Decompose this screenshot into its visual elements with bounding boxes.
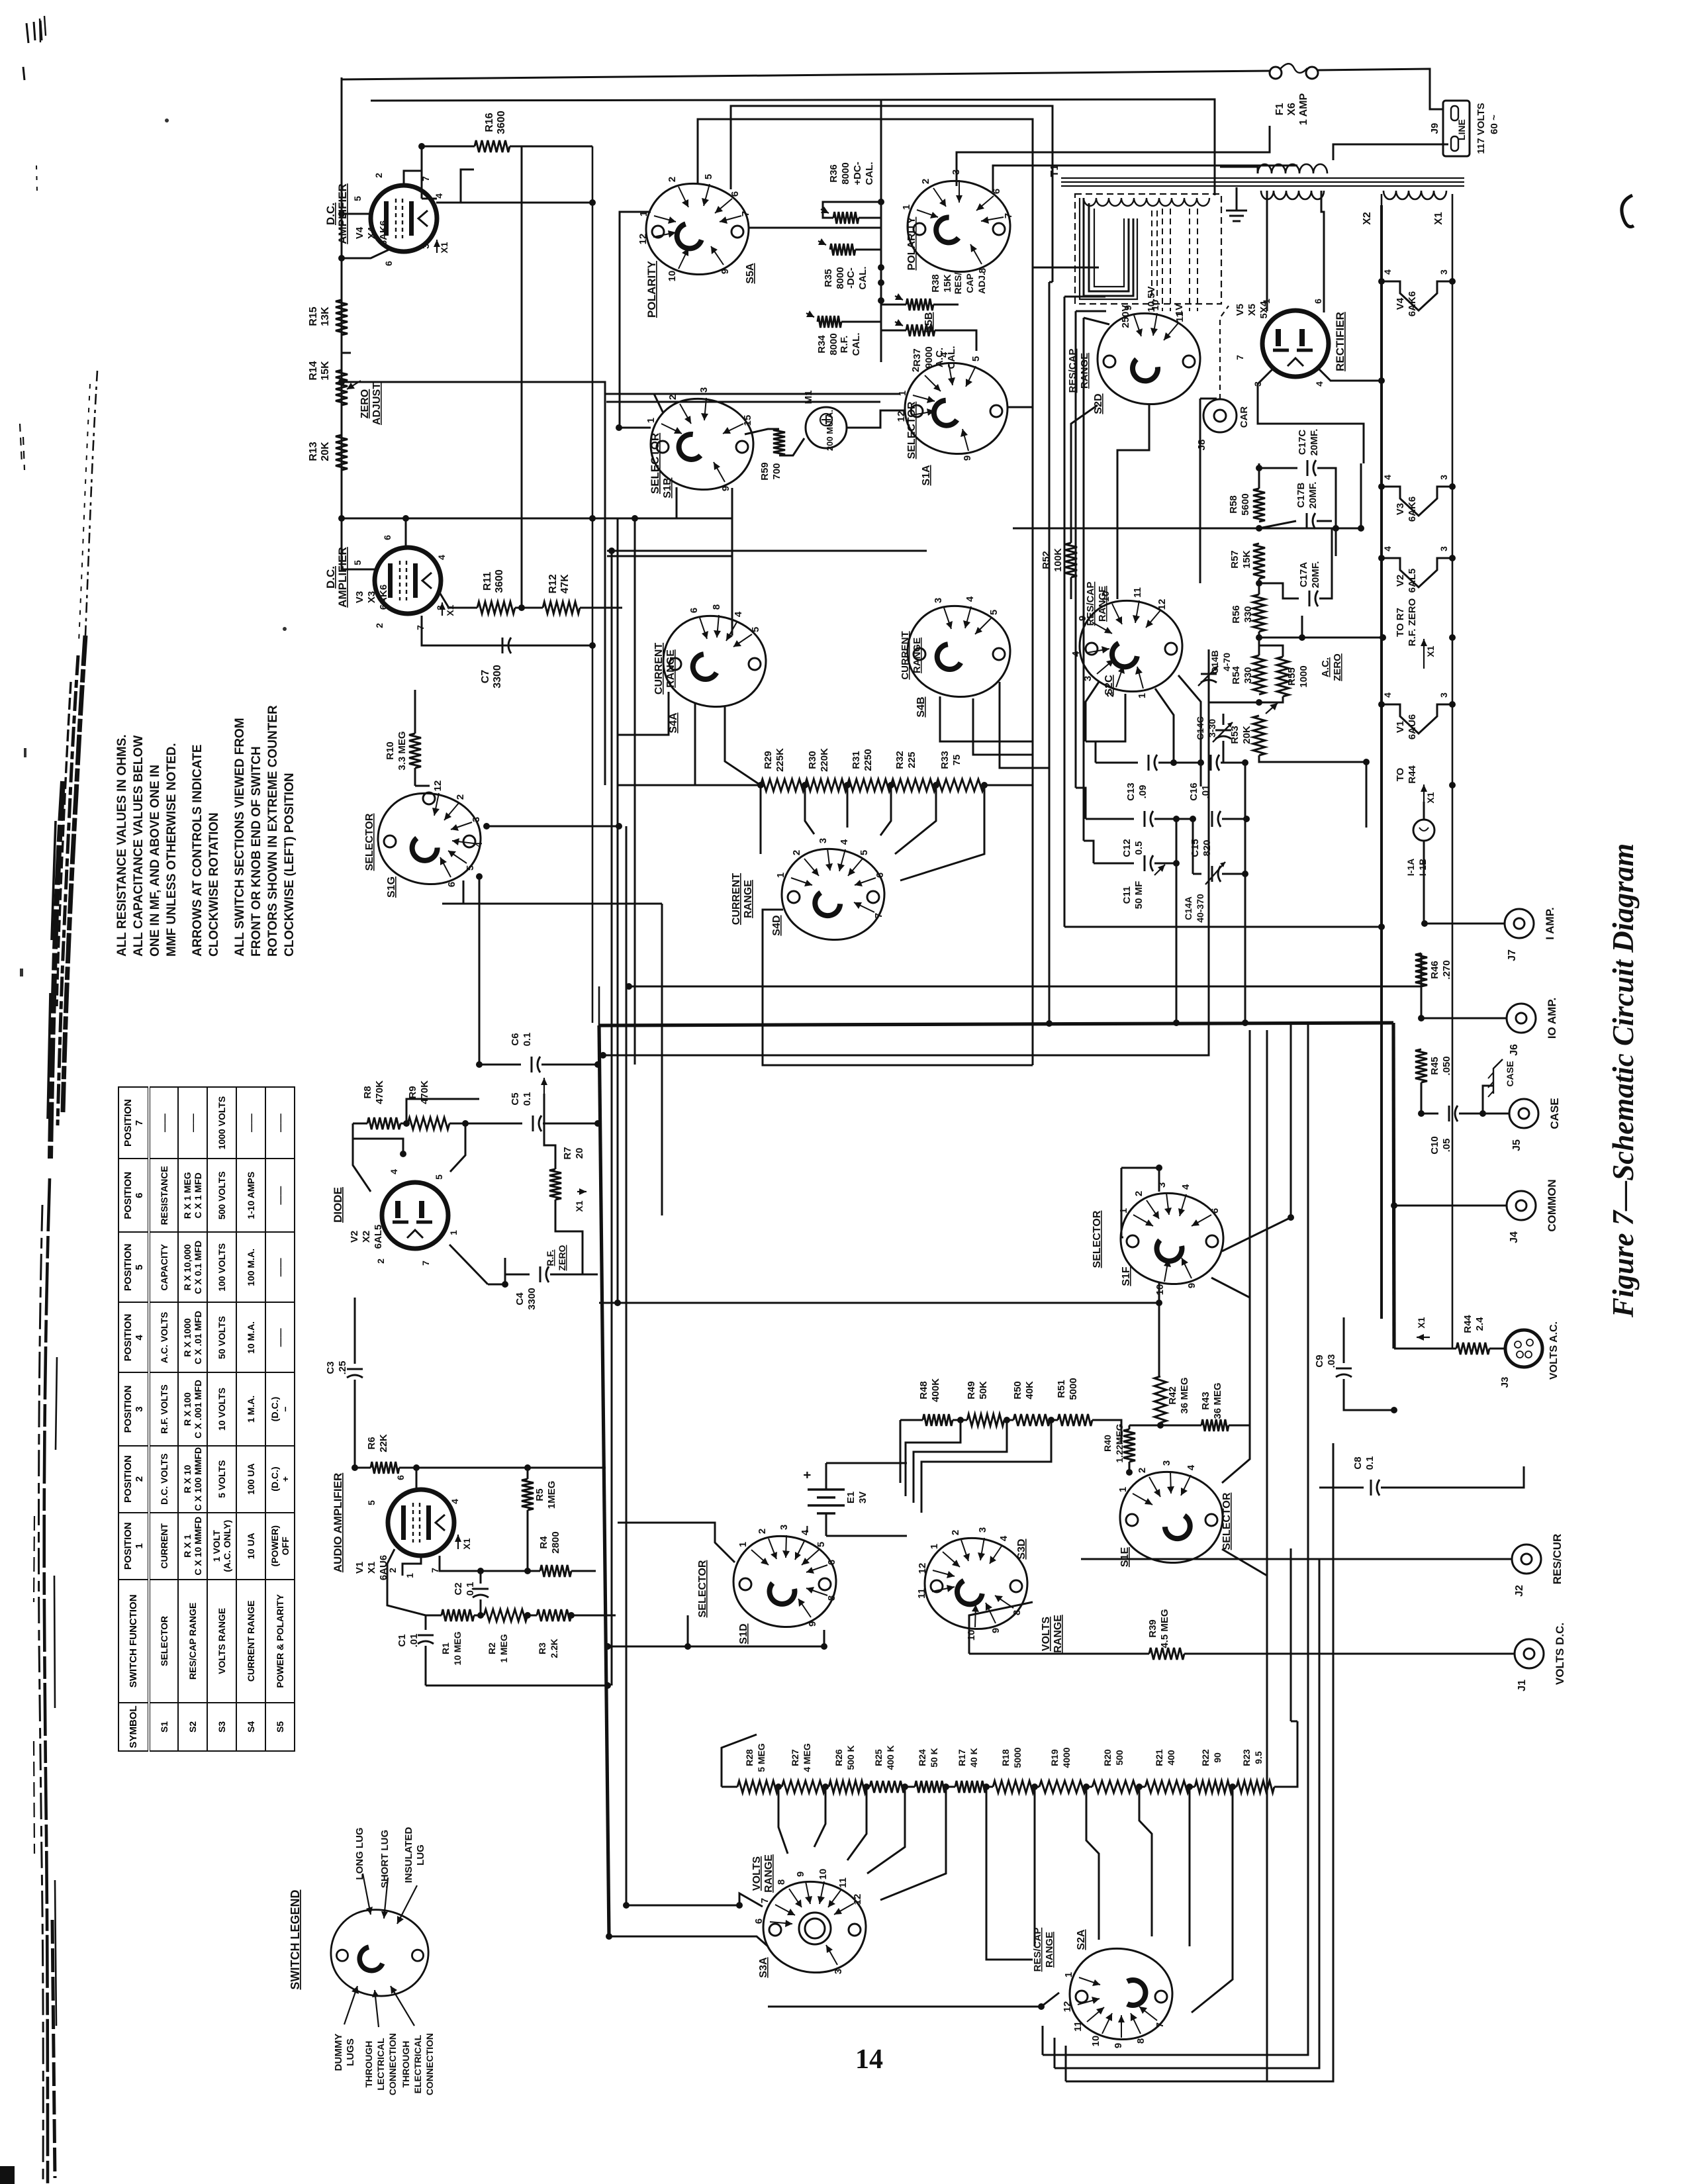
wire	[805, 785, 814, 834]
svg-text:4: 4	[839, 839, 850, 845]
svg-text:R48400K: R48400K	[918, 1378, 941, 1402]
svg-text:2: 2	[910, 367, 921, 372]
resistor R58 5600	[1253, 489, 1265, 522]
junction	[1378, 377, 1385, 384]
junction	[413, 1464, 420, 1471]
wire	[342, 518, 732, 520]
resistor	[833, 212, 859, 224]
wire	[1452, 194, 1454, 205]
wire	[1158, 1168, 1160, 1192]
wire	[1086, 682, 1099, 741]
svg-text:2: 2	[1133, 1191, 1145, 1196]
wire	[1117, 405, 1149, 599]
wire	[880, 99, 882, 362]
wire	[1086, 741, 1096, 763]
svg-text:R5320K: R5320K	[1229, 726, 1252, 744]
resistor R33 75	[936, 779, 984, 791]
wire	[1092, 1420, 1121, 1443]
wire	[1121, 1167, 1159, 1169]
wire	[1236, 187, 1238, 211]
svg-text:3: 3	[1438, 475, 1449, 480]
svg-text:ARROWS AT CONTROLS INDICATE: ARROWS AT CONTROLS INDICATE	[191, 744, 205, 957]
wire	[880, 1787, 946, 1900]
svg-text:C17C20MF.: C17C20MF.	[1297, 429, 1320, 456]
junction	[1004, 1417, 1010, 1423]
svg-text:6: 6	[826, 1560, 837, 1565]
capacitor C1 .01	[418, 1635, 434, 1637]
junction	[524, 1464, 531, 1471]
resistor R22 90	[1195, 1781, 1233, 1793]
svg-text:5: 5	[750, 627, 761, 632]
heavy bus row	[599, 1023, 1393, 1025]
wire	[895, 785, 936, 854]
wire	[1089, 203, 1129, 291]
resistor R46 .270	[1415, 953, 1427, 986]
svg-text:9: 9	[1123, 305, 1134, 310]
svg-text:2: 2	[920, 179, 931, 184]
svg-text:S2A: S2A	[1076, 1929, 1087, 1950]
wire	[399, 1467, 606, 1469]
svg-text:C120.5: C120.5	[1121, 839, 1145, 857]
resistor R54 330	[1253, 655, 1265, 694]
svg-text:SELECTOR: SELECTOR	[906, 401, 917, 459]
wire	[841, 321, 881, 323]
wire	[1193, 873, 1201, 875]
wire	[505, 1274, 530, 1276]
wire	[1307, 1023, 1309, 1576]
junction	[802, 782, 808, 788]
wire	[635, 487, 677, 518]
wire	[731, 488, 733, 636]
svg-text:C17A20MF.: C17A20MF.	[1298, 561, 1321, 589]
junction	[1288, 1214, 1294, 1221]
wire	[342, 490, 375, 569]
wire	[449, 1123, 522, 1125]
svg-text:4: 4	[1382, 546, 1393, 551]
resistor R53 20K	[1253, 716, 1265, 755]
wire	[855, 249, 881, 251]
svg-text:S1E: S1E	[1119, 1547, 1131, 1568]
svg-text:4: 4	[1186, 1464, 1197, 1470]
wire	[1259, 521, 1296, 528]
wire	[426, 1615, 442, 1617]
connector J9 LINE 117 VOLTS 60~	[1443, 101, 1470, 156]
wire	[847, 1787, 867, 1860]
svg-text:10: 10	[966, 1630, 977, 1641]
wire	[406, 1099, 479, 1123]
svg-text:ALL RESISTANCE VALUES IN O: ALL RESISTANCE VALUES IN OHMS.	[115, 734, 129, 957]
resistor R4 2800	[540, 1565, 571, 1577]
svg-text:9: 9	[807, 1621, 818, 1627]
capacitor C5 0.1	[532, 1116, 534, 1131]
capacitor C12 0.5	[1144, 811, 1146, 827]
svg-text:CLOCKWISE (LEFT) POSITION: CLOCKWISE (LEFT) POSITION	[283, 773, 297, 957]
junction	[476, 1061, 483, 1068]
resistor R28 5 MEG	[737, 1781, 778, 1793]
wire	[825, 1463, 827, 1490]
svg-text:I AMP.: I AMP.	[1544, 907, 1556, 939]
junction	[1418, 1110, 1425, 1117]
svg-text:R21 MEG: R21 MEG	[487, 1634, 509, 1663]
svg-text:2: 2	[667, 177, 678, 182]
wire	[1200, 763, 1202, 786]
svg-text:C3.25: C3.25	[325, 1361, 348, 1375]
resistor R59 700	[773, 429, 785, 455]
junction	[502, 1281, 508, 1288]
svg-text:C14B4-70: C14B4-70	[1209, 650, 1232, 674]
wire	[416, 1468, 418, 1490]
svg-text:+DC-CAL.: +DC-CAL.	[852, 162, 875, 185]
junction	[844, 782, 851, 788]
svg-text:R5040K: R5040K	[1012, 1381, 1035, 1400]
heater socket V2 6AL5	[1382, 558, 1452, 587]
svg-text:SELECTOR: SELECTOR	[1221, 1492, 1233, 1550]
svg-text:IO AMP.: IO AMP.	[1546, 998, 1558, 1039]
wire	[1317, 69, 1443, 109]
svg-text:R.F.CAL.: R.F.CAL.	[839, 333, 862, 356]
wire	[592, 146, 594, 1023]
wire	[1229, 215, 1244, 217]
wire	[541, 1064, 598, 1066]
wire	[1244, 874, 1246, 1023]
wire	[826, 1535, 907, 1537]
wire	[1321, 191, 1324, 312]
svg-text:DUMMYLUGS: DUMMYLUGS	[333, 2034, 356, 2071]
wire	[984, 784, 1033, 786]
junction	[1170, 759, 1177, 766]
wire	[1423, 802, 1425, 820]
wire	[1317, 520, 1332, 522]
wire	[1343, 1317, 1345, 1363]
wire	[1319, 1487, 1364, 1489]
junction	[933, 782, 939, 788]
svg-text:R358000: R358000	[823, 267, 846, 289]
junction	[1190, 816, 1196, 822]
svg-text:POLARITY: POLARITY	[906, 216, 917, 270]
junction	[483, 823, 490, 830]
svg-text:CAR: CAR	[1239, 406, 1250, 428]
svg-text:C17B20MF.: C17B20MF.	[1295, 482, 1319, 509]
junction	[400, 1151, 406, 1157]
wire	[609, 1936, 768, 1946]
junction	[1256, 699, 1262, 706]
wire	[1043, 1576, 1308, 2055]
svg-text:S4D: S4D	[771, 915, 782, 935]
junction	[352, 1464, 358, 1471]
wire	[440, 1563, 540, 1571]
left rail	[341, 77, 343, 521]
wire	[1035, 1786, 1039, 1788]
junction	[684, 1643, 691, 1650]
svg-text:4: 4	[964, 596, 976, 602]
resistor R57 15K	[1253, 544, 1265, 579]
wire	[1076, 310, 1106, 312]
junction	[757, 782, 764, 788]
svg-text:R442.4: R442.4	[1462, 1315, 1485, 1333]
svg-text:3: 3	[1438, 692, 1449, 698]
svg-text:J6: J6	[1509, 1044, 1520, 1056]
junction	[1358, 525, 1364, 532]
svg-text:15: 15	[742, 415, 753, 426]
svg-text:R54330: R54330	[1231, 666, 1254, 685]
wire	[745, 429, 779, 434]
wire	[1055, 1559, 1319, 2068]
wire	[1049, 281, 1053, 283]
junction	[1156, 1300, 1162, 1306]
svg-text:R379000: R379000	[912, 346, 935, 368]
secondary winding (rectifier plate)	[1261, 191, 1324, 199]
resistor R31 2250	[847, 779, 891, 791]
svg-text:5: 5	[816, 1542, 827, 1547]
junction	[589, 642, 596, 649]
wire	[1360, 463, 1362, 528]
svg-text:2: 2	[950, 1530, 961, 1535]
wire	[1084, 318, 1109, 324]
svg-text:1: 1	[1117, 1487, 1129, 1492]
svg-text:6: 6	[729, 191, 741, 197]
junction	[1378, 701, 1385, 708]
junction	[1157, 1422, 1164, 1429]
wire	[1084, 841, 1094, 863]
rotary switch S5B POLARITY	[908, 181, 1010, 271]
svg-text:4: 4	[1382, 692, 1393, 698]
svg-text:S1F: S1F	[1121, 1266, 1132, 1286]
svg-text:3: 3	[818, 838, 829, 843]
svg-text:Figure 7—Schematic Circuit Dia: Figure 7—Schematic Circuit Diagram	[1607, 843, 1640, 1318]
wire	[611, 551, 613, 1685]
svg-text:R4236 MEG: R4236 MEG	[1167, 1377, 1190, 1413]
rotary switch S3D VOLTS RANGE	[925, 1538, 1027, 1629]
svg-text:11: 11	[837, 1877, 849, 1888]
svg-text:11: 11	[1174, 312, 1186, 322]
wire	[1008, 406, 1033, 408]
capacitor C3 .25	[347, 1368, 363, 1370]
junction	[632, 515, 638, 522]
svg-text:CURRENTRANGE: CURRENTRANGE	[900, 631, 923, 679]
junction	[878, 264, 884, 271]
resistor R48 400K	[923, 1414, 953, 1426]
wire	[405, 518, 407, 547]
svg-text:6: 6	[395, 1475, 406, 1480]
svg-text:2: 2	[373, 173, 384, 178]
svg-text:C9.03: C9.03	[1314, 1354, 1337, 1368]
resistor R42 36MEG	[1154, 1376, 1166, 1423]
wire	[618, 1523, 735, 1562]
svg-text:R1740 K: R1740 K	[957, 1748, 979, 1768]
resistor	[336, 435, 348, 470]
wire	[1070, 577, 1072, 599]
wire	[1394, 1205, 1507, 1207]
wire	[1220, 306, 1229, 399]
svg-text:1: 1	[1118, 1208, 1129, 1213]
resistor R51 5000	[1058, 1414, 1092, 1426]
svg-text:10: 10	[818, 1869, 829, 1880]
capacitor C14C 3-30	[1215, 730, 1231, 732]
wire	[510, 146, 592, 148]
tube V4 X4 6AK6	[371, 185, 437, 252]
junction	[1197, 759, 1204, 766]
wire	[425, 1615, 427, 1630]
shielded winding box (dashed)	[1075, 194, 1221, 304]
junction	[402, 515, 409, 522]
wire	[1032, 267, 1034, 785]
wire	[1139, 1786, 1145, 1788]
wire	[607, 550, 927, 552]
svg-text:LINE: LINE	[1456, 119, 1467, 140]
wire	[353, 1139, 403, 1154]
junction	[1083, 1783, 1090, 1790]
svg-text:X1: X1	[461, 1538, 472, 1549]
capacitor C10 .05	[1448, 1106, 1450, 1121]
svg-text:X1: X1	[1416, 1317, 1427, 1328]
junction	[1449, 555, 1456, 561]
svg-text:INSULATEDLUG: INSULATEDLUG	[403, 1827, 426, 1883]
wire	[603, 649, 1209, 1055]
wire	[488, 1258, 505, 1284]
svg-text:R2450 K: R2450 K	[917, 1748, 939, 1768]
resistor R11 3600	[477, 602, 515, 614]
wire	[1221, 762, 1245, 764]
svg-text:R113600: R113600	[482, 569, 505, 593]
junction	[626, 983, 632, 990]
svg-text:9: 9	[1113, 2043, 1124, 2048]
resistor R20 500	[1092, 1781, 1139, 1793]
svg-text:5: 5	[352, 196, 363, 201]
wire	[778, 1786, 782, 1788]
capacitor C2 0.1	[473, 1588, 489, 1590]
rotary switch S1F SELECTOR	[1121, 1193, 1223, 1284]
junction	[1378, 483, 1385, 490]
svg-text:1: 1	[929, 1544, 940, 1549]
svg-text:R9470K: R9470K	[407, 1080, 430, 1104]
wire	[1176, 819, 1178, 863]
svg-text:1: 1	[775, 873, 786, 878]
junction	[1038, 2003, 1045, 2010]
junction	[524, 1568, 531, 1574]
wire	[1121, 1168, 1123, 1237]
wire	[353, 1123, 371, 1192]
junction	[878, 279, 884, 286]
wire	[580, 607, 622, 609]
capacitor C6 0.1	[531, 1057, 533, 1072]
wire	[1459, 1113, 1509, 1115]
wire	[1290, 1548, 1292, 1721]
wire	[1162, 209, 1163, 311]
resistor R9 470K	[408, 1117, 449, 1129]
wire	[953, 1419, 967, 1421]
heater socket V4 6AK6	[1382, 281, 1452, 310]
wire	[474, 1615, 484, 1617]
svg-text:14: 14	[855, 2044, 883, 2075]
junction	[1031, 1783, 1038, 1790]
wire	[571, 1570, 596, 1572]
rotary switch legend switch	[331, 1910, 428, 1996]
wire	[342, 248, 392, 258]
svg-text:R45.050: R45.050	[1429, 1056, 1452, 1075]
svg-text:R26500 K: R26500 K	[833, 1745, 856, 1770]
fuse F1 X6 1 AMP	[1270, 67, 1282, 79]
wire	[1301, 616, 1303, 638]
svg-text:SELECTOR: SELECTOR	[1092, 1210, 1103, 1268]
svg-text:SHORT LUG: SHORT LUG	[379, 1830, 391, 1888]
meter M1 200 MU.A.	[806, 407, 847, 448]
svg-text:E13V: E13V	[845, 1492, 868, 1503]
svg-text:5: 5	[988, 610, 1000, 615]
wire	[414, 768, 416, 786]
wire	[436, 169, 474, 203]
resistor R55 1000	[1277, 657, 1289, 696]
wire	[449, 607, 477, 609]
wire	[1061, 177, 1464, 179]
svg-text:SELECTOR: SELECTOR	[697, 1560, 708, 1617]
svg-text:8: 8	[1135, 2038, 1147, 2044]
svg-text:J5: J5	[1511, 1139, 1523, 1151]
resistor	[336, 300, 348, 335]
svg-text:10: 10	[667, 271, 678, 282]
svg-text:J4: J4	[1509, 1231, 1520, 1243]
svg-text:4: 4	[449, 1499, 460, 1504]
junction	[1256, 634, 1262, 641]
capacitor C17A 20MF	[1309, 591, 1311, 606]
junction	[1449, 782, 1456, 788]
wire	[1096, 762, 1138, 764]
wire	[449, 1245, 488, 1284]
wire	[634, 518, 636, 1065]
resistor	[906, 324, 935, 336]
svg-text:R368000: R368000	[828, 162, 851, 184]
svg-text:S1B: S1B	[662, 477, 673, 498]
svg-text:X1: X1	[574, 1200, 585, 1211]
junction	[1391, 1407, 1397, 1413]
svg-text:117 VOLTS: 117 VOLTS	[1476, 103, 1487, 154]
svg-text:C73300: C73300	[480, 665, 503, 688]
wire to J2	[1081, 1558, 1512, 1560]
rotary switch S2D RES/CAP RANGE	[1098, 313, 1200, 404]
wire	[1192, 819, 1194, 874]
wire	[1154, 818, 1193, 820]
wire	[439, 1556, 441, 1563]
wire	[1176, 863, 1178, 1023]
svg-text:11: 11	[1072, 2021, 1084, 2032]
capacitor C13 .09	[1148, 755, 1150, 771]
svg-text:8: 8	[826, 1595, 837, 1601]
svg-text:R720: R720	[562, 1147, 585, 1159]
wire	[1065, 2046, 1067, 2081]
svg-text:3: 3	[1161, 1460, 1172, 1466]
wire	[599, 1302, 1159, 1304]
svg-text:C20.1: C20.1	[453, 1582, 476, 1596]
wire	[1064, 926, 1382, 928]
jack J4 COMMON	[1507, 1191, 1536, 1220]
svg-text:CURRENTRANGE: CURRENTRANGE	[731, 873, 754, 925]
svg-text:3: 3	[778, 1525, 790, 1530]
resistor R21 400	[1145, 1781, 1190, 1793]
wire	[1421, 1082, 1423, 1114]
svg-text:7: 7	[1003, 213, 1014, 218]
svg-text:ROTORS SHOWN IN EXTREME CO: ROTORS SHOWN IN EXTREME COUNTER	[266, 705, 280, 957]
wire	[1258, 579, 1260, 594]
junction	[1048, 1417, 1055, 1423]
capacitor C15 820	[1211, 811, 1213, 827]
wire	[1208, 649, 1210, 669]
wire	[1380, 205, 1383, 1319]
wire	[687, 1615, 689, 1646]
rotary switch S1G SELECTOR	[378, 793, 481, 884]
wire	[1483, 1086, 1493, 1114]
svg-text:3: 3	[977, 1527, 988, 1533]
svg-text:9: 9	[720, 269, 731, 274]
junction	[623, 1902, 630, 1909]
